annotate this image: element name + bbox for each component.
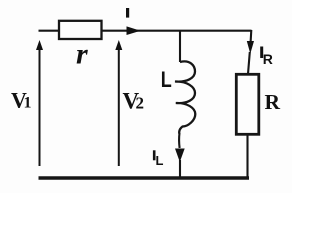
resistor r box	[59, 21, 102, 39]
current arrow I arrowhead	[127, 26, 141, 35]
inductor L coil	[175, 61, 195, 133]
wire top-middle segment	[102, 30, 181, 32]
svg-text:r: r	[76, 38, 88, 71]
svg-text:1: 1	[24, 95, 32, 112]
svg-text:2: 2	[136, 94, 145, 113]
svg-text:L: L	[156, 153, 164, 168]
wire bottom	[39, 176, 250, 179]
voltage arrow V2	[115, 40, 122, 166]
svg-text:L: L	[161, 68, 172, 92]
resistor R box	[236, 74, 258, 134]
wire inductor bottom stem	[178, 133, 181, 177]
svg-text:R: R	[263, 51, 273, 67]
wire right branch down to R	[248, 30, 251, 74]
wire inductor branch stem	[179, 30, 181, 62]
wire R bottom stem	[246, 135, 248, 178]
svg-text:R: R	[265, 90, 281, 114]
current arrow I_R arrowhead	[247, 41, 254, 54]
wire top-right segment	[180, 30, 252, 32]
current arrow I_L arrowhead	[175, 149, 185, 163]
wire top-left segment	[39, 30, 59, 32]
label I_R	[260, 47, 263, 59]
label I	[126, 8, 129, 18]
voltage arrow V1	[36, 40, 43, 166]
label I_L	[153, 150, 156, 160]
